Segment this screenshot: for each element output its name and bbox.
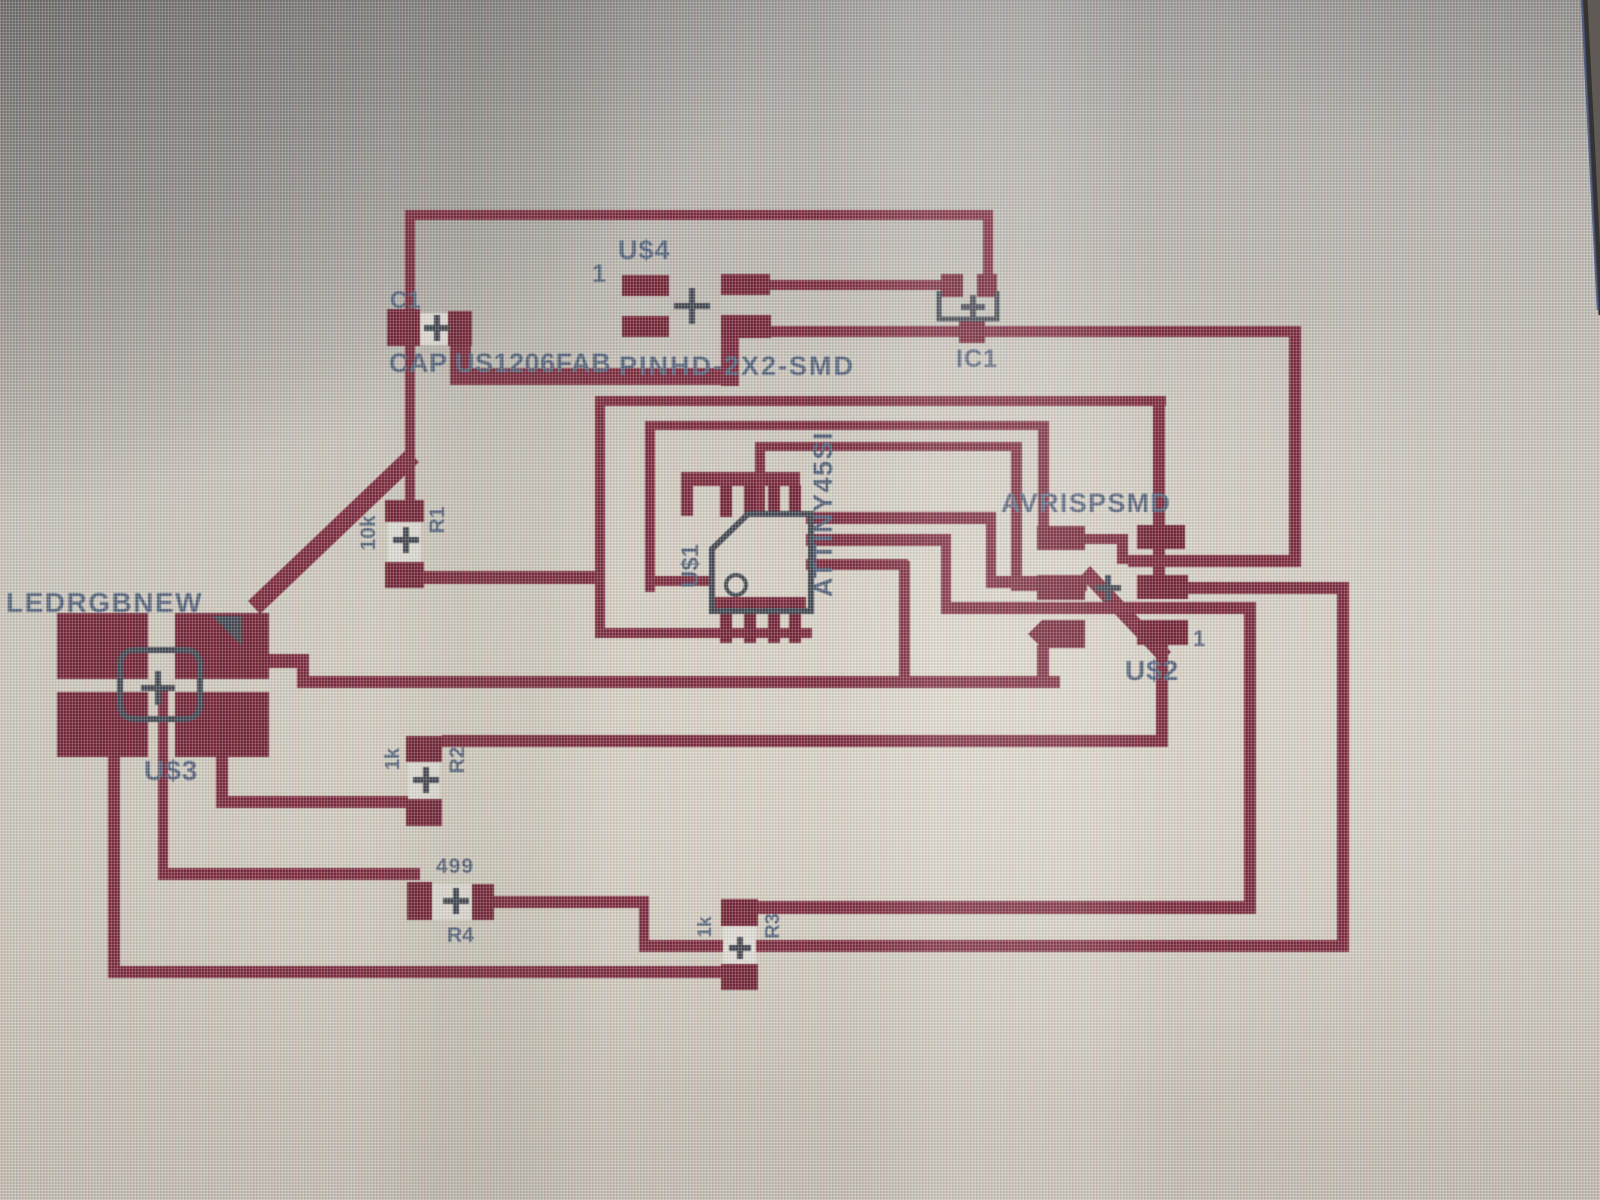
svg-text:1k: 1k <box>695 916 716 938</box>
svg-text:PINHD-2X2-SMD: PINHD-2X2-SMD <box>619 351 855 381</box>
svg-text:R4: R4 <box>447 924 474 947</box>
svg-text:IC1: IC1 <box>956 345 998 373</box>
svg-text:499: 499 <box>436 855 474 878</box>
svg-text:LEDRGBNEW: LEDRGBNEW <box>6 587 203 618</box>
svg-text:R1: R1 <box>426 506 449 533</box>
svg-text:ATTINY45SI: ATTINY45SI <box>808 431 838 597</box>
svg-text:1: 1 <box>592 260 606 288</box>
svg-text:R3: R3 <box>762 913 784 939</box>
svg-text:C1: C1 <box>390 287 421 314</box>
svg-text:AVRISPSMD: AVRISPSMD <box>1001 488 1171 518</box>
svg-text:U$4: U$4 <box>618 235 671 265</box>
svg-text:CAP US1206FAB: CAP US1206FAB <box>389 348 611 378</box>
svg-text:10k: 10k <box>357 515 380 550</box>
svg-text:U$1: U$1 <box>677 544 704 588</box>
svg-text:1k: 1k <box>382 747 404 770</box>
svg-text:1: 1 <box>1193 626 1205 651</box>
svg-text:U$2: U$2 <box>1125 655 1179 686</box>
svg-text:R2: R2 <box>446 747 469 774</box>
svg-text:U$3: U$3 <box>144 755 198 786</box>
